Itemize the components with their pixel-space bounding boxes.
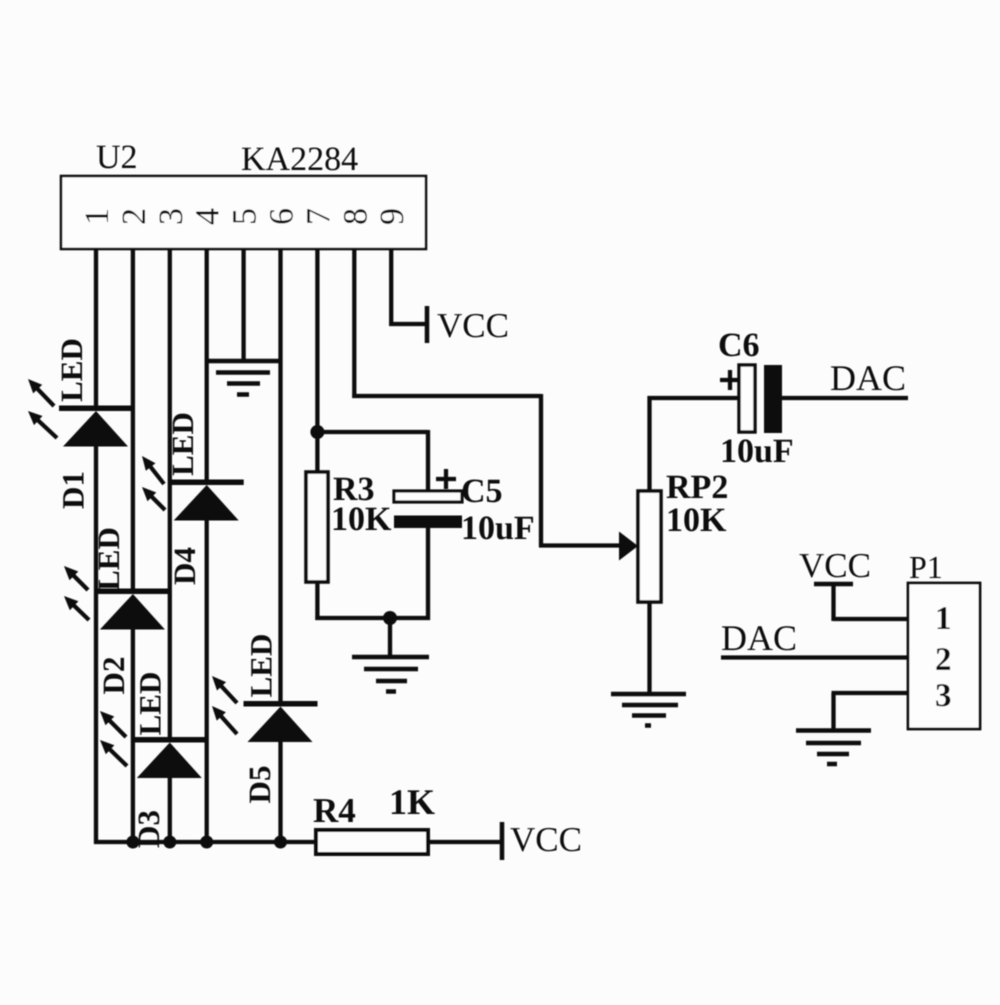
wire VCC to P1 pin1 bbox=[831, 584, 835, 621]
svg-text:1: 1 bbox=[935, 601, 952, 637]
LED D1 bbox=[28, 379, 133, 447]
wire D4 anode bbox=[205, 520, 209, 845]
junction D4 anode/rail bbox=[200, 836, 213, 849]
svg-text:6: 6 bbox=[264, 208, 301, 225]
svg-text:C5: C5 bbox=[461, 473, 503, 510]
wire D2 anode bbox=[131, 629, 135, 845]
svg-text:P1: P1 bbox=[909, 549, 943, 585]
svg-text:R4: R4 bbox=[313, 791, 356, 830]
svg-text:4: 4 bbox=[190, 208, 227, 225]
svg-text:U2: U2 bbox=[96, 139, 138, 176]
pin 4 wire bbox=[205, 249, 209, 481]
connector P1 bbox=[908, 583, 980, 729]
svg-text:D2: D2 bbox=[96, 657, 131, 695]
ground (RP2) bbox=[611, 692, 686, 697]
wire ground stem bbox=[388, 618, 392, 657]
svg-text:9: 9 bbox=[374, 208, 411, 225]
junction D5 anode/rail bbox=[274, 836, 287, 849]
svg-text:LED: LED bbox=[165, 412, 200, 476]
svg-text:10K: 10K bbox=[666, 502, 727, 539]
svg-text:LED: LED bbox=[244, 634, 279, 698]
svg-text:LED: LED bbox=[133, 672, 168, 736]
C6 polarity + bbox=[720, 378, 740, 382]
svg-text:KA2284: KA2284 bbox=[241, 141, 358, 178]
ground (P1) bbox=[796, 728, 871, 733]
svg-text:VCC: VCC bbox=[799, 546, 871, 585]
wire pin9 to VCC bbox=[389, 322, 427, 326]
wire R3/C5 bottom link bbox=[315, 616, 430, 620]
LED D4 bbox=[142, 456, 244, 521]
svg-text:10uF: 10uF bbox=[720, 433, 794, 470]
svg-text:VCC: VCC bbox=[437, 306, 509, 345]
LED D2 bbox=[64, 566, 170, 630]
wire C5 bottom bbox=[426, 528, 430, 620]
pin 7 wire bbox=[315, 249, 319, 472]
wire node to C5 top bbox=[317, 430, 428, 434]
LED D5 bbox=[212, 676, 318, 742]
wire RP2 bottom bbox=[647, 602, 651, 694]
VCC terminal (top) bbox=[425, 306, 430, 343]
C5 polarity + bbox=[436, 477, 456, 481]
junction ground node bbox=[383, 611, 397, 625]
svg-text:3: 3 bbox=[935, 678, 952, 714]
svg-text:1: 1 bbox=[79, 208, 116, 225]
svg-text:2: 2 bbox=[116, 208, 153, 225]
pin 9 wire bbox=[389, 249, 393, 326]
wire R3 bottom bbox=[315, 582, 319, 620]
pin 2 wire bbox=[131, 249, 135, 590]
wire D1 anode bbox=[94, 446, 98, 845]
junction D2 anode/rail bbox=[126, 836, 139, 849]
LED D3 bbox=[100, 711, 207, 778]
svg-text:RP2: RP2 bbox=[666, 469, 728, 506]
potentiometer RP2 bbox=[638, 491, 661, 602]
ground (pin 5) bbox=[207, 359, 280, 364]
VCC terminal (bottom) bbox=[500, 822, 505, 860]
resistor R3 bbox=[306, 472, 328, 582]
pin 6 wire bbox=[278, 249, 282, 703]
wire D3 anode bbox=[168, 777, 172, 844]
wire to RP2 wiper bbox=[539, 543, 621, 547]
junction D3 anode/rail bbox=[163, 836, 176, 849]
ground (R3/C5) bbox=[352, 655, 429, 660]
svg-text:D4: D4 bbox=[167, 547, 202, 585]
wire bottom rail bbox=[94, 840, 316, 844]
svg-text:5: 5 bbox=[227, 208, 264, 225]
svg-text:D1: D1 bbox=[56, 471, 91, 509]
RP2 wiper arrow bbox=[619, 532, 638, 561]
svg-text:DAC: DAC bbox=[830, 358, 906, 398]
wire pin8 vertical bbox=[539, 394, 543, 547]
pin 1 wire bbox=[94, 249, 98, 407]
wire R4 to VCC bbox=[428, 840, 501, 844]
svg-text:3: 3 bbox=[153, 208, 190, 225]
capacitor C5 bbox=[394, 491, 462, 502]
pin 5 wire bbox=[241, 249, 245, 361]
svg-text:7: 7 bbox=[300, 208, 337, 225]
IC U2 KA2284 body bbox=[61, 176, 426, 249]
svg-text:LED: LED bbox=[54, 338, 89, 402]
wire RP2 top to C6 bbox=[648, 396, 740, 400]
wire pin8 horizontal bbox=[352, 394, 541, 398]
VCC terminal (P1) bbox=[814, 582, 853, 587]
wire DAC to P1 pin2 bbox=[721, 655, 908, 659]
wire RP2 top bbox=[647, 396, 651, 491]
svg-text:10K: 10K bbox=[331, 501, 392, 538]
svg-text:8: 8 bbox=[337, 208, 374, 225]
wire D5 anode bbox=[278, 741, 282, 844]
pin 8 wire bbox=[352, 249, 356, 398]
svg-text:VCC: VCC bbox=[510, 820, 582, 859]
wire P1 pin3 to ground bbox=[832, 691, 909, 695]
svg-text:2: 2 bbox=[935, 642, 952, 678]
capacitor C6 bbox=[739, 365, 755, 432]
svg-text:10uF: 10uF bbox=[461, 510, 535, 547]
svg-text:1K: 1K bbox=[389, 782, 435, 822]
svg-text:DAC: DAC bbox=[721, 618, 797, 658]
svg-text:LED: LED bbox=[91, 527, 126, 591]
resistor R4 bbox=[316, 830, 428, 854]
pin 3 wire bbox=[168, 249, 172, 739]
svg-text:C6: C6 bbox=[718, 327, 760, 364]
junction pin7/R3/C5 node bbox=[310, 425, 324, 439]
svg-text:D5: D5 bbox=[242, 766, 277, 804]
wire C6 to DAC bbox=[782, 396, 908, 400]
